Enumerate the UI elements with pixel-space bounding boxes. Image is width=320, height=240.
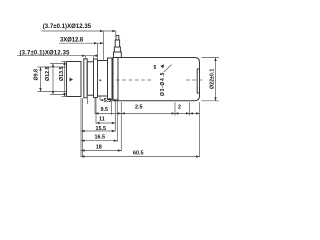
svg-text:2: 2 [178, 105, 181, 111]
svg-text:15.5: 15.5 [96, 126, 107, 132]
svg-text:(3.7±0.1)XØ12.35: (3.7±0.1)XØ12.35 [43, 24, 92, 30]
svg-text:Ø13.5: Ø13.5 [59, 67, 65, 81]
svg-text:18: 18 [96, 144, 102, 150]
svg-text:16.5: 16.5 [95, 134, 106, 140]
svg-text:11: 11 [99, 116, 105, 122]
svg-text:9.5: 9.5 [101, 107, 109, 113]
svg-text:3XØ12.8: 3XØ12.8 [60, 38, 84, 44]
svg-text:60.5: 60.5 [133, 151, 144, 157]
svg-text:Ø3-Ø4.5: Ø3-Ø4.5 [160, 72, 166, 96]
svg-text:5: 5 [154, 65, 157, 71]
svg-text:5.5: 5.5 [104, 98, 112, 104]
svg-text:Ø22±0.1: Ø22±0.1 [210, 69, 216, 89]
svg-text:2.5: 2.5 [135, 105, 143, 111]
svg-text:Ø12.8: Ø12.8 [45, 67, 51, 81]
svg-text:Ø9.8: Ø9.8 [33, 69, 39, 81]
